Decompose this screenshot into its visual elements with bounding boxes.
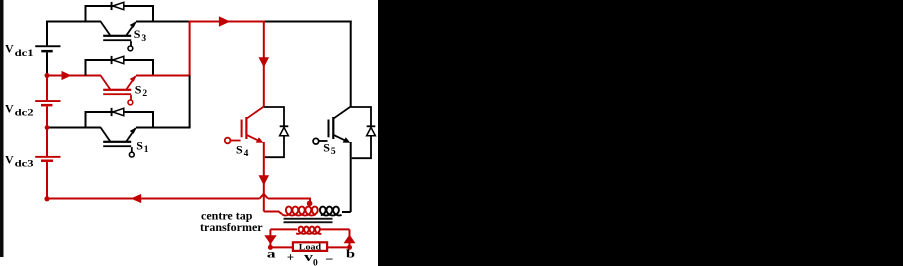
wire S2 emitter to mid bus (red) (136, 75, 191, 77)
wire S4 diode branch tee (black) (264, 107, 284, 126)
wire bottom return bus (red) (47, 198, 260, 200)
svg-text:4: 4 (244, 149, 249, 159)
transformer core (284, 218, 333, 223)
diode D5 (367, 125, 376, 135)
label v0 (304, 249, 318, 266)
label S2 (135, 83, 148, 100)
wire load to node b (327, 246, 350, 248)
transformer primary left winding (red) (282, 207, 318, 216)
node A junction dot (45, 73, 50, 78)
black panel (right side) (378, 0, 903, 266)
arrow down on S4 drop (259, 57, 270, 67)
IGBT S4 (red) (225, 107, 264, 144)
svg-text:dc2: dc2 (15, 108, 35, 118)
wire hop over S4 emitter wire (260, 194, 268, 199)
label S1 (136, 139, 148, 156)
svg-text:S: S (236, 143, 243, 157)
IGBT S5 (black) (313, 107, 351, 145)
wire node B to Vdc3+ (46, 128, 48, 157)
wire hop to centre tap (268, 199, 310, 202)
arrow down to node a (264, 235, 276, 244)
IGBT S1 (101, 127, 137, 157)
svg-text:S: S (136, 139, 143, 153)
wire load left vertical (red) (269, 229, 271, 247)
wire Vdc1- to node A (46, 52, 48, 74)
arrow left on bottom bus (131, 194, 141, 203)
left border bar (0, 0, 4, 257)
svg-text:V: V (5, 152, 14, 166)
svg-text:V: V (5, 101, 14, 115)
wire S1 emitter to mid bus (black) (136, 127, 191, 129)
svg-text:b: b (346, 247, 356, 261)
wire mid vertical bus red (top to S2 level) (189, 22, 191, 76)
diode D1 (111, 108, 124, 116)
node b dot (347, 245, 352, 250)
arrow down on S4 emitter wire (259, 175, 270, 185)
label Vdc3 (5, 152, 34, 168)
centre tap dot (307, 201, 313, 207)
svg-text:5: 5 (331, 147, 336, 157)
wire secondary right lead (320, 228, 350, 230)
battery Vdc1 (35, 45, 60, 52)
arrow right on top rail (219, 16, 230, 27)
node a dot (268, 245, 273, 250)
svg-text:S: S (323, 140, 330, 154)
diode D3 loop (86, 6, 154, 22)
wire secondary left lead (270, 228, 297, 230)
load box (293, 242, 327, 251)
wire S5 diode branch bottom (black) (352, 136, 371, 158)
svg-text:S: S (134, 27, 141, 41)
wire S5 diode branch tee (black) (351, 107, 371, 126)
battery Vdc2 (35, 100, 60, 106)
label Load (299, 242, 322, 252)
arrow right on S2 collector wire (62, 71, 72, 80)
label S5 (323, 140, 336, 157)
wire S5 collector drop (black) (350, 21, 352, 108)
label centre tap transformer (200, 209, 263, 234)
diode D4 (280, 125, 289, 135)
svg-text:0: 0 (313, 259, 318, 266)
wire Vdc2- to node B (46, 106, 48, 126)
node B dot overlay (45, 125, 50, 130)
wire Vdc3- down to bottom bus corner (46, 162, 48, 199)
IGBT S2 (red) (101, 75, 137, 105)
label + (287, 250, 294, 264)
diode D3 (111, 2, 124, 10)
label b (346, 247, 356, 261)
wire S3 emitter to mid bus (black) (136, 21, 190, 23)
label a (267, 247, 276, 261)
svg-text:S: S (135, 83, 142, 97)
wire S5 emitter down to transformer (black) (342, 142, 351, 212)
svg-text:dc3: dc3 (15, 159, 35, 169)
node A dot overlay (45, 73, 50, 78)
wire S4 collector drop (red) (263, 21, 265, 108)
wire node a to load (270, 246, 293, 248)
node bottom-left corner dot (44, 196, 49, 201)
label minus (325, 250, 333, 265)
svg-text:dc1: dc1 (15, 48, 35, 58)
arrow up from node b (344, 235, 356, 244)
svg-text:transformer: transformer (200, 220, 263, 234)
svg-text:1: 1 (144, 145, 149, 155)
wire S1 collector rail (black) (46, 127, 101, 129)
transformer secondary winding (red) (296, 227, 321, 234)
diode D1 loop (86, 112, 154, 128)
label Vdc1 (5, 42, 34, 58)
diode D2 loop (86, 60, 154, 76)
diode D2 (111, 56, 124, 64)
wire mid vertical bus black (S2 to S1 level) (189, 76, 191, 128)
svg-text:V: V (5, 42, 14, 56)
wire S2 collector rail (red) (46, 75, 101, 77)
svg-text:3: 3 (141, 34, 146, 44)
label Vdc2 (5, 101, 34, 117)
label S4 (236, 143, 249, 160)
label S3 (134, 27, 147, 44)
svg-text:a: a (267, 247, 276, 261)
svg-text:+: + (287, 250, 294, 264)
svg-text:2: 2 (142, 89, 147, 99)
wire S4 diode branch bottom (black) (265, 136, 284, 157)
node B junction dot (45, 125, 49, 129)
wire node A to Vdc2+ (red) (46, 76, 48, 101)
transformer primary right winding (black) (320, 207, 342, 216)
wire top rail black left (Vdc1+ to S3 collector) (46, 21, 101, 46)
battery Vdc3 (35, 156, 60, 162)
wire top rail red segment (189, 21, 264, 23)
wire load right vertical (red) (349, 229, 351, 247)
svg-text:–: – (325, 250, 333, 265)
wire S4 emitter down to transformer (red) (264, 142, 282, 214)
wire top rail black right segment to S5 (264, 21, 352, 23)
IGBT S3 (101, 21, 137, 51)
